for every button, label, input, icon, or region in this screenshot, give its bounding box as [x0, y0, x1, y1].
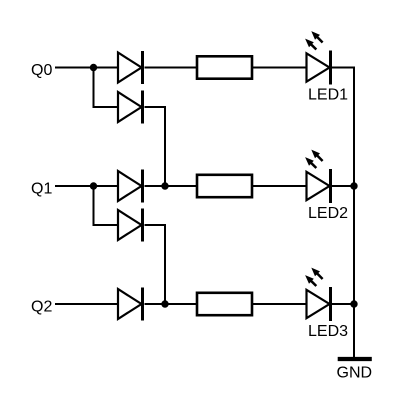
wire: [55, 185, 119, 187]
svg-text:LED1: LED1: [308, 87, 348, 104]
ground: [338, 357, 372, 361]
junction node row Q1: [161, 182, 168, 189]
resistor R2: [197, 175, 252, 197]
wire: [55, 67, 119, 69]
diode D1b: [118, 91, 143, 124]
resistor R1: [197, 56, 252, 78]
wire: [94, 68, 120, 108]
wire: [353, 67, 355, 358]
LED LED1: [305, 31, 330, 84]
wire: [332, 67, 355, 69]
junction node row Q2: [161, 300, 168, 307]
junction node on Q1: [90, 182, 97, 189]
wire: [145, 67, 198, 69]
wire: [253, 303, 308, 305]
wire: [94, 186, 120, 225]
wire: [332, 185, 355, 187]
junction node bus at LED3: [350, 300, 357, 307]
LED LED3: [305, 268, 330, 321]
wire: [145, 185, 198, 187]
svg-text:Q0: Q0: [31, 62, 52, 79]
wire: [145, 225, 166, 304]
diode D2b: [118, 209, 143, 242]
resistor R3: [197, 293, 252, 315]
wire: [253, 185, 308, 187]
LED LED2: [305, 150, 330, 203]
svg-text:Q1: Q1: [31, 180, 52, 197]
wire: [253, 67, 308, 69]
junction node bus at LED2: [350, 182, 357, 189]
diode D2a: [118, 170, 143, 203]
diode D3a: [118, 288, 143, 321]
wire: [145, 107, 166, 186]
wire: [55, 303, 119, 305]
svg-text:Q2: Q2: [31, 298, 52, 315]
junction node on Q0: [90, 64, 97, 71]
wire: [145, 303, 198, 305]
svg-text:LED2: LED2: [308, 205, 348, 222]
diode D1a: [118, 51, 143, 84]
svg-text:LED3: LED3: [308, 323, 348, 340]
wire: [332, 303, 355, 305]
svg-text:GND: GND: [337, 364, 373, 381]
